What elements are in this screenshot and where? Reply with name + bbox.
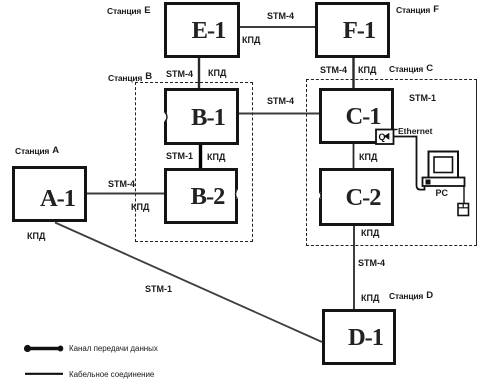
label Ethernet (398, 126, 432, 136)
legend cable symbol (25, 373, 63, 375)
wire E1-F1 STM-4 (239, 26, 316, 28)
wire E1-B1 vertical (198, 57, 200, 89)
label KPD (E1-B1) (208, 68, 226, 78)
node D-1 (322, 309, 396, 365)
label KPD (C2 lower) (361, 228, 379, 238)
wire A1-D1 diagonal STM-1 (55, 223, 322, 343)
wire B1-B2 thick channel (199, 144, 202, 169)
label STM-4 (B1-C1) (267, 96, 294, 106)
wire C2-D1 vertical (353, 225, 355, 310)
node B-1 (164, 88, 239, 145)
station label D (389, 291, 433, 302)
label KPD (A-1) (27, 231, 45, 241)
node A-1 (12, 166, 87, 222)
label KPD (C1-C2) (359, 152, 377, 162)
node C-1 (319, 88, 394, 144)
wire B1-C1 STM-4 (238, 113, 320, 115)
label STM-4 (F1-C1) (320, 65, 347, 75)
label PC (436, 188, 449, 198)
station label F (396, 5, 439, 16)
PC system unit bar (423, 178, 465, 187)
station label B (108, 73, 152, 84)
node C-2 (319, 168, 394, 226)
node E-1 (164, 2, 240, 58)
dashed station B boundary (135, 82, 253, 242)
label KPD (E1-F1) (242, 35, 260, 45)
PC monitor (429, 152, 459, 179)
ethernet cable to PC (394, 137, 425, 190)
wire C1-C2 vertical (353, 143, 355, 169)
label STM-4 (A1-B2) (108, 179, 135, 189)
legend data channel symbol (24, 345, 63, 352)
wire A1-B2 STM-4 (86, 193, 165, 195)
PC unit dark block (426, 180, 431, 185)
label STM-4 (E1-F1) (267, 11, 294, 21)
mouse (458, 204, 469, 216)
label STM-4 (C2-D1) (358, 258, 385, 268)
label KPD (A1-B2) (131, 202, 149, 212)
mouse cable (463, 186, 465, 204)
node B-2 (164, 168, 238, 224)
station label A (15, 146, 59, 157)
station label E (107, 6, 150, 17)
label STM-1 (B1-B2) (166, 151, 193, 161)
ethernet port Q on C-1 (376, 130, 398, 145)
label KPD (D1) (361, 293, 379, 303)
connector notch on B-2 right edge (236, 189, 244, 199)
connector notch on C-2 left edge (315, 192, 321, 198)
legend text: cable (69, 370, 154, 379)
node F-1 (315, 2, 390, 58)
station label C (389, 64, 433, 75)
label STM-1 (diagonal) (145, 284, 172, 294)
PC screen (434, 157, 453, 173)
wire F1-C1 vertical (352, 57, 354, 89)
label KPD (B1-B2) (207, 152, 225, 162)
label STM-4 (E1-B1) (166, 69, 193, 79)
connector notch on B-1 left edge (159, 112, 167, 121)
label STM-1 (station C internal) (409, 93, 436, 103)
label KPD (F1-C1) (358, 65, 376, 75)
legend text: data channel (69, 344, 158, 353)
dashed station C boundary (306, 79, 477, 246)
